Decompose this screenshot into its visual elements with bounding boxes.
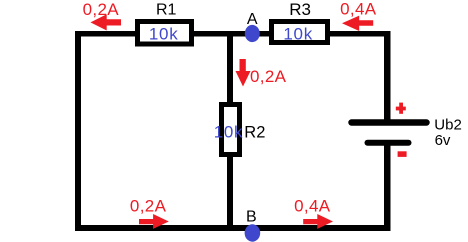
battery minus sign: [398, 151, 407, 157]
current arrow middle (pointing down): [236, 59, 251, 87]
svg-text:0,4A: 0,4A: [294, 197, 331, 216]
svg-text:0,2A: 0,2A: [83, 0, 120, 19]
svg-text:0,2A: 0,2A: [130, 197, 167, 216]
resistor R2: [222, 105, 240, 155]
svg-text:6v: 6v: [435, 132, 451, 149]
svg-text:R3: R3: [289, 0, 311, 19]
svg-text:Ub2: Ub2: [434, 117, 462, 134]
battery U1 short negative plate: [368, 140, 409, 146]
wire top horizontal: [75, 31, 391, 37]
current arrow top-left (pointing left): [91, 14, 122, 30]
resistor R1: [138, 22, 192, 45]
svg-text:10k: 10k: [283, 24, 313, 43]
current arrow bottom-left (pointing right): [139, 214, 169, 229]
svg-text:R2: R2: [244, 124, 265, 142]
wire left vertical: [75, 31, 81, 231]
wire bottom horizontal: [75, 225, 391, 231]
node A dot: [245, 25, 260, 42]
svg-text:0,2A: 0,2A: [250, 67, 287, 86]
wire right vertical lower: [384, 143, 391, 231]
resistor R3: [272, 22, 328, 43]
svg-text:10k: 10k: [214, 122, 244, 141]
svg-text:R1: R1: [156, 1, 177, 18]
wire middle branch lower: [227, 154, 233, 231]
node B dot: [245, 224, 261, 241]
current arrow bottom-right (pointing right): [303, 214, 333, 229]
current arrow top-right (pointing left): [342, 16, 373, 31]
svg-text:A: A: [247, 11, 258, 28]
wire middle branch upper: [227, 31, 233, 105]
wire right vertical upper: [384, 31, 391, 122]
svg-text:B: B: [246, 209, 257, 226]
svg-text:10k: 10k: [149, 24, 179, 43]
svg-text:0,4A: 0,4A: [340, 0, 377, 19]
battery plus sign: [396, 103, 406, 114]
battery U1 long positive plate: [352, 119, 427, 126]
